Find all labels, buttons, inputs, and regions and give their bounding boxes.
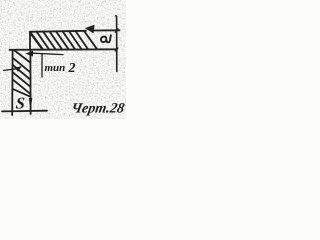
tick at top right crossing	[115, 29, 118, 32]
right edge thick arrow	[29, 98, 32, 108]
v hatch 4	[13, 72, 31, 87]
hatch h7	[69, 31, 82, 49]
vertical plate left edge	[11, 50, 13, 115]
hatch h4	[50, 31, 63, 49]
left arrow line	[4, 69, 17, 71]
hatch h6	[63, 31, 76, 49]
svg-text:S: S	[15, 93, 26, 112]
horizontal plate left edge	[29, 32, 31, 50]
hatch h5	[56, 31, 69, 49]
v hatch 1	[15, 51, 31, 63]
v hatch 3	[13, 65, 31, 80]
hatch h2	[37, 32, 50, 50]
v hatch 2	[13, 58, 31, 73]
svg-text:тип: тип	[45, 62, 66, 74]
svg-text:2: 2	[68, 61, 76, 76]
hatch h1	[30, 33, 42, 50]
shelf tick	[41, 54, 43, 77]
v hatch 5	[13, 79, 31, 94]
tick at bottom right crossing	[115, 48, 118, 51]
scan speckle	[0, 0, 126, 119]
v hatch 6	[12, 89, 29, 96]
horizontal plate top edge	[30, 30, 120, 32]
shelf line	[33, 53, 63, 54]
right extension line	[115, 16, 118, 72]
leader arrow	[25, 51, 33, 57]
hatch h9	[84, 31, 97, 49]
S dim arrow on top edge	[86, 25, 94, 32]
vertical plate right edge	[29, 50, 31, 115]
left arrowhead	[15, 66, 22, 72]
hatch h8	[76, 31, 89, 49]
bottom dim line	[2, 110, 47, 113]
rotated S dim label	[101, 35, 111, 42]
hatch h3	[43, 32, 56, 50]
svg-text:Черт.28: Черт.28	[70, 101, 126, 117]
horizontal plate bottom edge (shared with vertical plate top)	[10, 48, 118, 51]
